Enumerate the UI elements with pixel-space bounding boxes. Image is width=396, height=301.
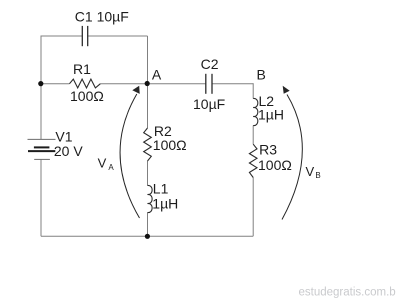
arrow VB head [283,86,290,94]
svg-text:100Ω: 100Ω [70,88,104,104]
wire R3 to bottom rail [252,178,254,237]
inductor L1 [148,185,153,212]
svg-text:C2: C2 [201,56,219,72]
svg-text:V: V [306,164,315,179]
wire node A to C2 [148,83,206,85]
wire C2 to corner B [212,83,253,85]
wire main horizontal left of R1 [41,83,70,85]
wire top branch down to node A [147,36,149,84]
arrow VA head [132,86,139,94]
svg-text:V: V [98,156,107,171]
wire left rail upper [40,36,42,85]
wire battery bottom to bottom rail [40,160,42,237]
svg-text:B: B [257,67,266,83]
wire L2 to R3 [252,126,254,145]
svg-text:10µF: 10µF [193,96,225,112]
wire node A down to R2 [147,84,149,128]
svg-text:R1: R1 [73,61,91,77]
wire L1 to bottom node [147,213,149,237]
svg-text:20 V: 20 V [54,143,83,159]
node (bottom junction) dot [145,234,150,239]
capacitor C2 [206,74,212,94]
svg-text:100Ω: 100Ω [153,137,187,153]
resistor R1 [70,79,101,88]
svg-text:estudegratis.com.br: estudegratis.com.br [299,287,396,299]
svg-text:L1: L1 [153,181,169,197]
wire top-right segment (C1 branch right) [88,35,148,37]
node A dot [145,81,150,86]
wire top-left segment (C1 branch left) [41,35,82,37]
inductor L2 [253,98,258,125]
svg-text:A: A [108,163,114,172]
svg-text:B: B [315,171,320,180]
capacitor C1 [82,26,87,46]
wire corner B down to L2 [252,83,254,98]
svg-text:1µH: 1µH [258,106,284,122]
wire R1 to node A [101,83,148,85]
svg-text:C1 10µF: C1 10µF [75,8,129,24]
node (left junction) dot [38,81,43,86]
wire left rail to battery top [40,84,42,140]
resistor R3 [249,144,257,177]
arrow VB (curved) [282,95,302,220]
svg-text:1µH: 1µH [152,195,178,211]
arrow VA (curved) [120,94,139,218]
svg-text:A: A [152,66,162,82]
battery V1 [28,139,56,159]
svg-text:100Ω: 100Ω [258,157,292,173]
resistor R2 [144,128,152,161]
wire bottom rail [41,235,253,237]
svg-text:R3: R3 [259,142,277,158]
svg-text:V1: V1 [55,129,72,145]
wire R2 to L1 [147,161,149,186]
